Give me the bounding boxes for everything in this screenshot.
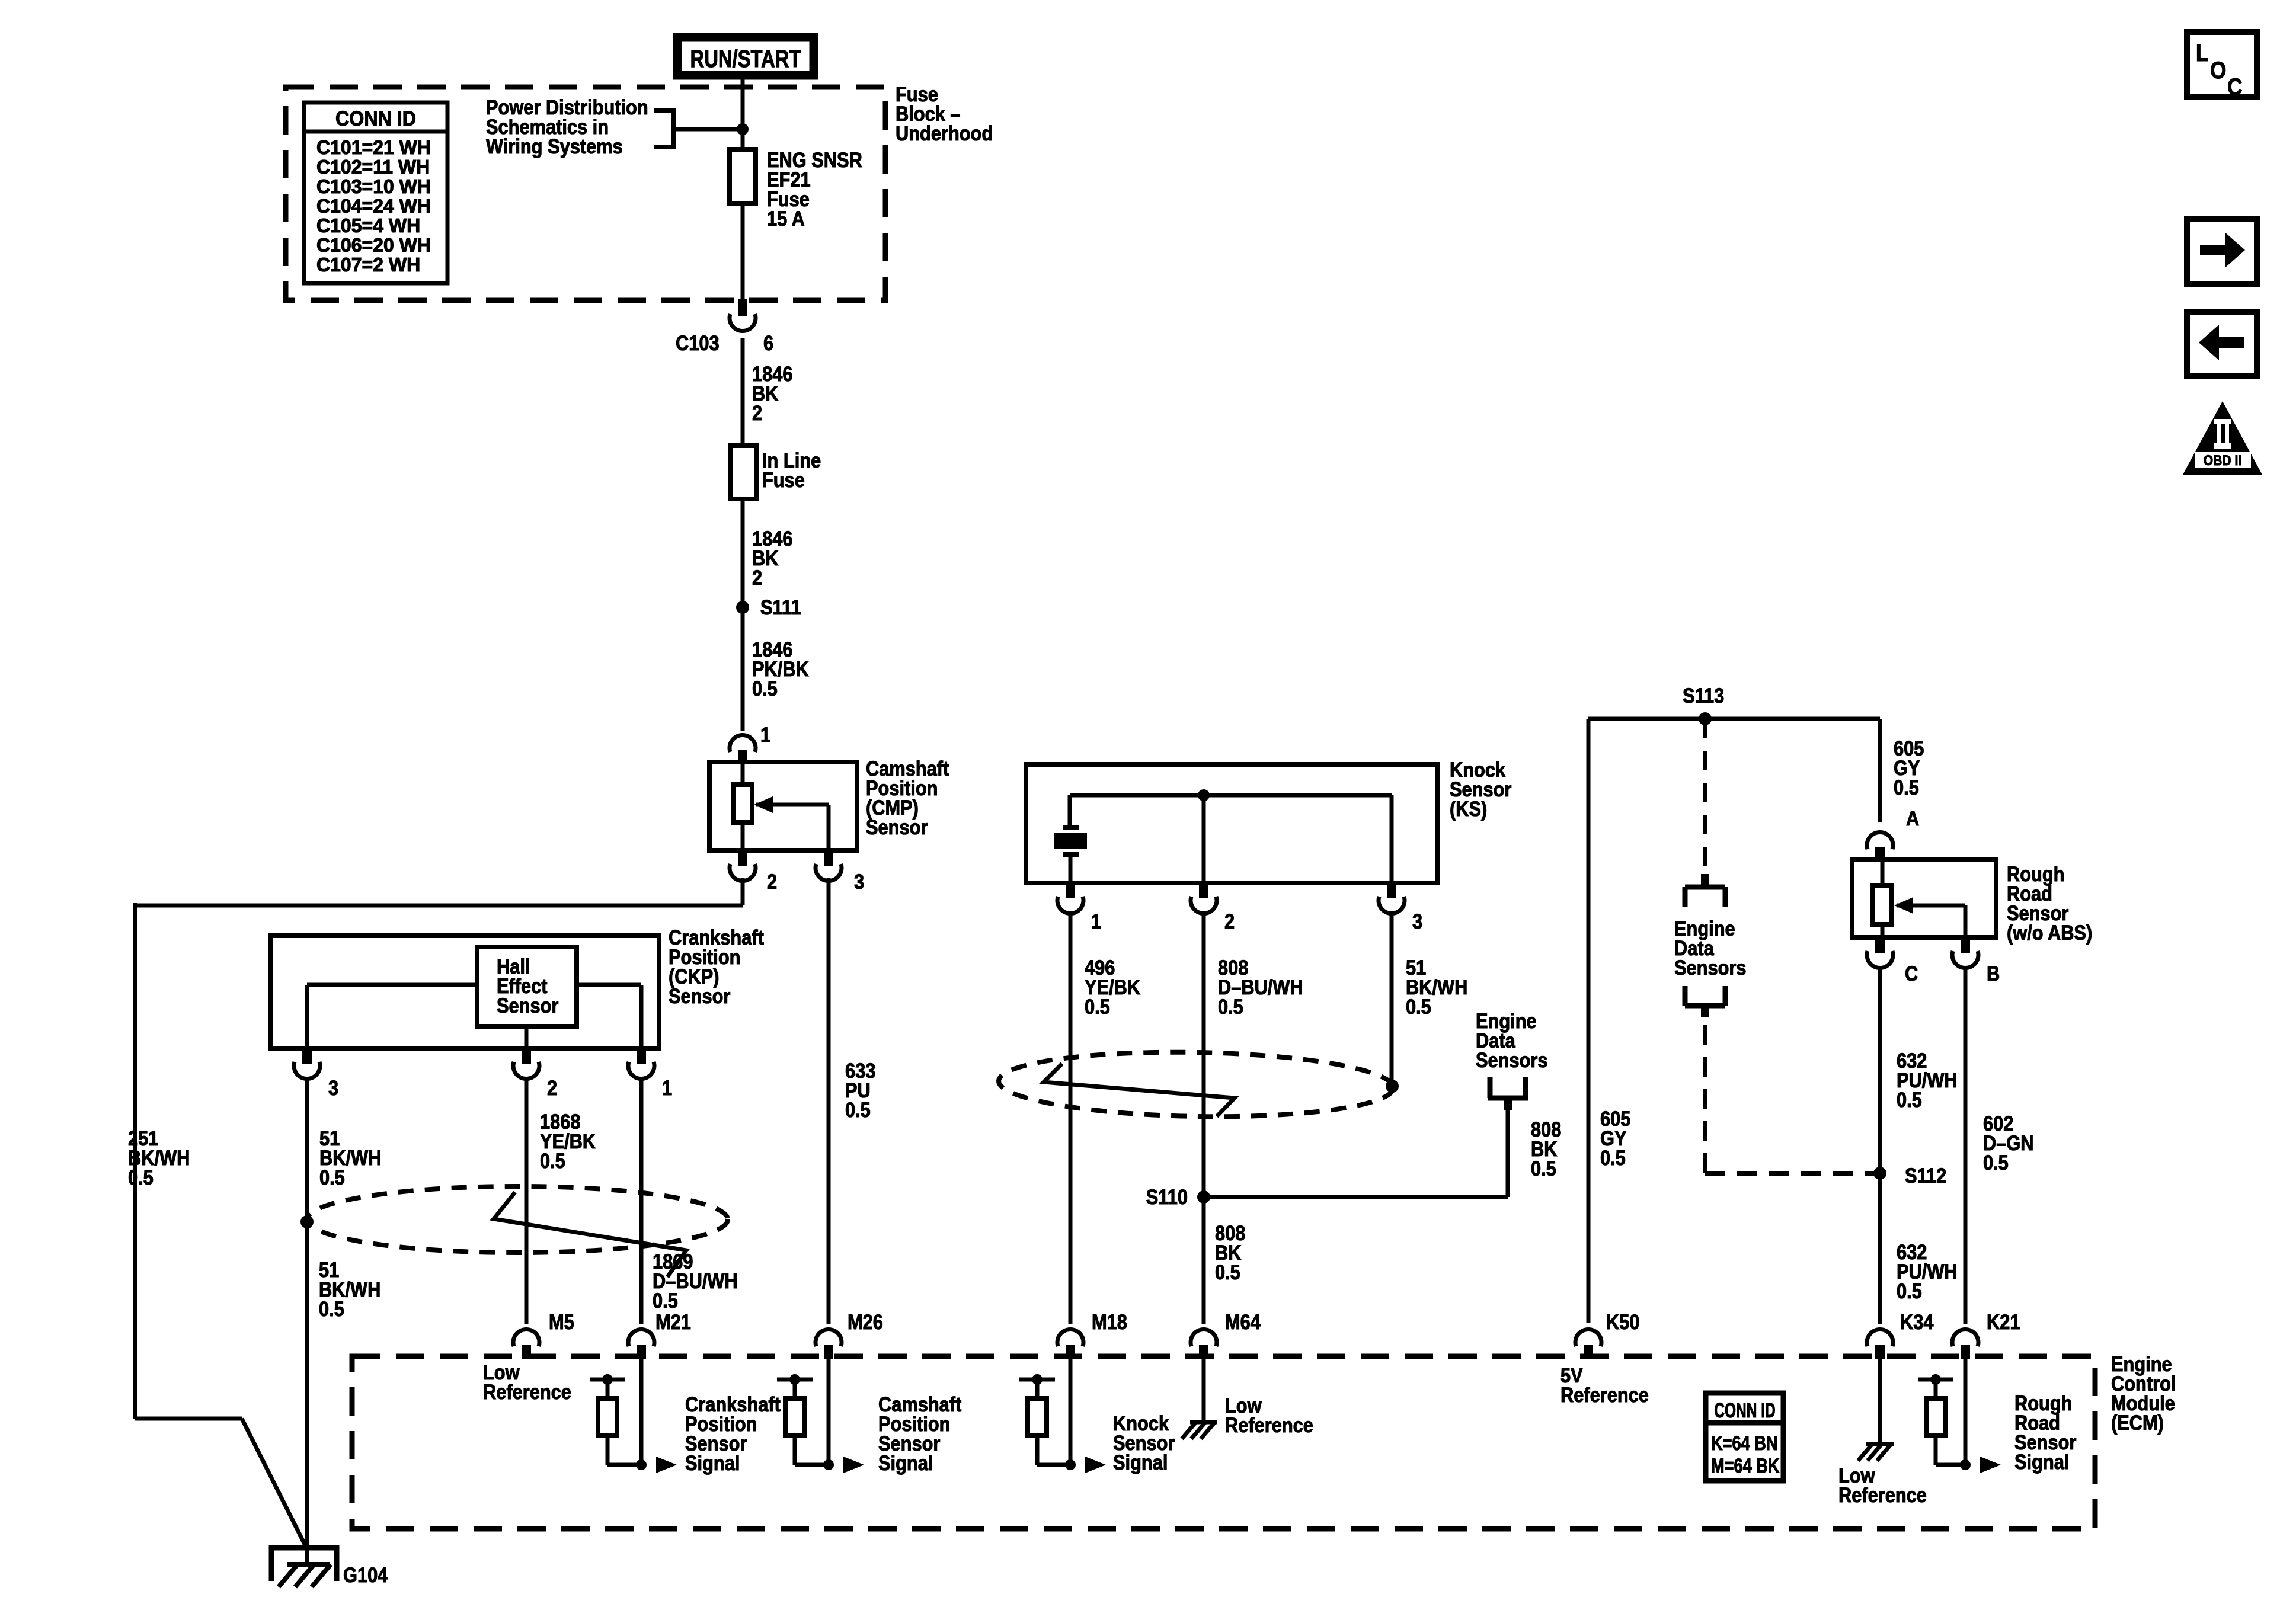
svg-text:Underhood: Underhood [896, 121, 993, 145]
svg-text:Reference: Reference [1225, 1413, 1313, 1436]
svg-text:0.5: 0.5 [319, 1166, 345, 1189]
svg-text:A: A [1906, 806, 1919, 830]
svg-text:1: 1 [662, 1076, 672, 1099]
svg-text:Reference: Reference [1838, 1483, 1927, 1506]
svg-text:0.5: 0.5 [1406, 995, 1431, 1018]
svg-text:0.5: 0.5 [1531, 1157, 1556, 1180]
svg-text:C103: C103 [676, 331, 720, 354]
svg-text:1: 1 [760, 723, 770, 746]
svg-text:2: 2 [767, 870, 777, 893]
svg-text:3: 3 [854, 870, 864, 893]
svg-text:(KS): (KS) [1450, 797, 1487, 820]
svg-text:K34: K34 [1900, 1310, 1934, 1333]
svg-text:C104=24 WH: C104=24 WH [316, 196, 431, 217]
svg-text:M26: M26 [848, 1310, 883, 1333]
svg-text:S113: S113 [1683, 684, 1724, 707]
svg-text:S110: S110 [1146, 1185, 1188, 1208]
svg-text:Sensors: Sensors [1476, 1048, 1547, 1071]
svg-text:0.5: 0.5 [319, 1297, 344, 1320]
svg-text:0.5: 0.5 [1215, 1260, 1240, 1283]
svg-text:Fuse: Fuse [762, 468, 805, 491]
svg-text:Sensor: Sensor [669, 984, 731, 1007]
svg-text:0.5: 0.5 [653, 1289, 678, 1312]
svg-text:0.5: 0.5 [128, 1166, 154, 1189]
svg-text:K21: K21 [1987, 1310, 2020, 1333]
svg-text:15 A: 15 A [767, 207, 805, 230]
svg-text:C106=20 WH: C106=20 WH [316, 235, 431, 257]
svg-text:K=64 BN: K=64 BN [1711, 1432, 1778, 1455]
svg-text:(w/o ABS): (w/o ABS) [2007, 921, 2092, 944]
svg-text:K50: K50 [1606, 1310, 1639, 1333]
svg-text:Signal: Signal [878, 1451, 933, 1474]
svg-text:Wiring Systems: Wiring Systems [486, 135, 623, 158]
svg-text:Sensor: Sensor [866, 815, 928, 838]
svg-text:RUN/START: RUN/START [690, 44, 801, 72]
svg-text:C101=21 WH: C101=21 WH [316, 137, 431, 159]
svg-text:0.5: 0.5 [1085, 995, 1110, 1018]
svg-text:OBD II: OBD II [2204, 453, 2242, 469]
svg-text:B: B [1987, 962, 2000, 985]
svg-text:0.5: 0.5 [1218, 995, 1243, 1018]
svg-text:0.5: 0.5 [1897, 1279, 1922, 1302]
svg-text:2: 2 [752, 401, 762, 424]
svg-text:CONN ID: CONN ID [1714, 1400, 1775, 1422]
svg-text:C107=2 WH: C107=2 WH [316, 254, 420, 276]
svg-text:CONN ID: CONN ID [335, 108, 416, 131]
svg-text:0.5: 0.5 [845, 1098, 871, 1121]
svg-text:Signal: Signal [685, 1451, 740, 1474]
svg-text:0.5: 0.5 [540, 1149, 565, 1172]
svg-text:0.5: 0.5 [1983, 1151, 2009, 1174]
svg-text:Signal: Signal [2014, 1450, 2069, 1473]
svg-text:C102=11 WH: C102=11 WH [316, 156, 430, 178]
svg-text:C103=10 WH: C103=10 WH [316, 176, 431, 198]
svg-text:M64: M64 [1225, 1310, 1261, 1333]
svg-text:S111: S111 [760, 596, 801, 619]
svg-text:Sensor: Sensor [497, 994, 559, 1017]
svg-text:0.5: 0.5 [1897, 1088, 1922, 1111]
svg-text:2: 2 [547, 1076, 557, 1099]
svg-text:L: L [2196, 40, 2209, 66]
svg-text:0.5: 0.5 [1894, 776, 1919, 799]
svg-text:Reference: Reference [483, 1380, 571, 1403]
svg-text:Sensors: Sensors [1674, 956, 1746, 979]
svg-text:3: 3 [328, 1076, 338, 1099]
svg-text:(ECM): (ECM) [2111, 1411, 2164, 1434]
svg-text:M=64 BK: M=64 BK [1711, 1454, 1780, 1477]
svg-text:M18: M18 [1092, 1310, 1127, 1333]
svg-text:O: O [2210, 57, 2226, 84]
svg-text:C105=4 WH: C105=4 WH [316, 215, 420, 237]
svg-text:M21: M21 [655, 1310, 691, 1333]
svg-text:M5: M5 [549, 1310, 574, 1333]
svg-text:0.5: 0.5 [752, 677, 778, 700]
svg-text:C: C [2227, 73, 2242, 100]
svg-text:S112: S112 [1905, 1164, 1946, 1187]
svg-text:1: 1 [1091, 910, 1101, 933]
svg-text:C: C [1905, 962, 1918, 985]
svg-text:2: 2 [752, 566, 762, 589]
svg-text:3: 3 [1412, 910, 1422, 933]
svg-text:2: 2 [1224, 910, 1235, 933]
svg-text:0.5: 0.5 [1600, 1146, 1626, 1169]
svg-text:6: 6 [763, 331, 773, 354]
svg-text:Reference: Reference [1560, 1383, 1649, 1406]
svg-text:Signal: Signal [1113, 1451, 1168, 1474]
svg-text:G104: G104 [343, 1563, 388, 1586]
